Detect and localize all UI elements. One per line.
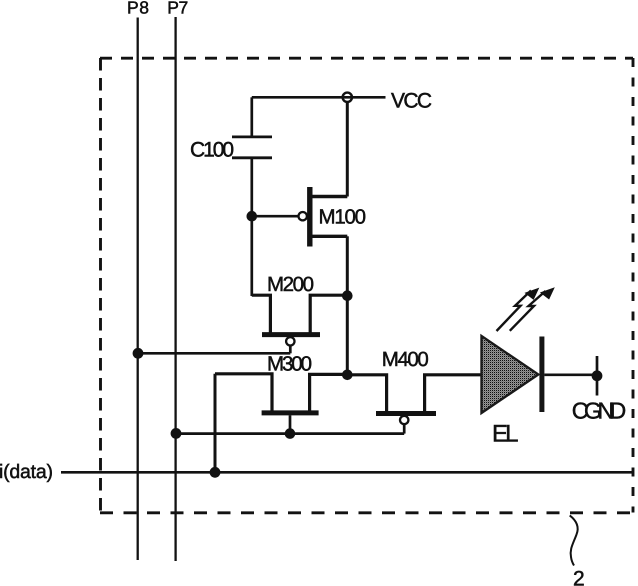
capacitor C100	[232, 137, 272, 158]
svg-text:M400: M400	[382, 348, 429, 371]
scan line P8	[137, 18, 139, 561]
svg-text:M100: M100	[319, 206, 367, 229]
wire: gate node to M100 gate bubble	[252, 215, 299, 218]
svg-text:M300: M300	[267, 353, 312, 376]
node: P7 tap	[171, 428, 182, 439]
svg-text:CGND: CGND	[572, 397, 627, 423]
wire: M100 source down to current node	[346, 236, 349, 295]
wire: EL cathode to CGND terminal	[544, 373, 597, 376]
node: M300 gate junction	[285, 428, 296, 439]
wire: M300 drain down to i(data) row	[214, 374, 217, 473]
transistor M200	[252, 295, 347, 353]
wire: C100 bottom plate down to gate node	[250, 158, 253, 296]
node: M100 source / M200 drain junction	[342, 290, 353, 301]
emission arrows	[497, 287, 555, 331]
scan line P7	[174, 17, 176, 561]
wire: i(data) row line	[61, 471, 633, 474]
svg-text:VCC: VCC	[391, 89, 432, 112]
wire: P7 tap to M300 / M400 gates	[176, 432, 404, 435]
transistor M100	[299, 187, 348, 247]
wire: P8 tap to M200 gate	[138, 352, 290, 355]
node: P8 tap	[133, 348, 144, 359]
leader line to pixel boundary	[570, 515, 578, 565]
wire: VCC rail	[252, 96, 386, 99]
transistor M400	[347, 375, 481, 434]
svg-text:M200: M200	[267, 273, 314, 296]
node: i(data) tap	[210, 467, 221, 478]
EL diode	[482, 336, 545, 413]
node: C100 / M100 gate junction	[247, 211, 258, 222]
node: drive node junction	[342, 370, 353, 381]
svg-text:EL: EL	[492, 421, 519, 448]
VCC terminal	[343, 93, 352, 102]
wire: VCC terminal down to M100 drain	[346, 102, 349, 197]
svg-text:C100: C100	[190, 138, 234, 161]
transistor M300	[215, 374, 347, 434]
pixel boundary dashed border	[100, 58, 633, 513]
svg-text:P8: P8	[127, 0, 149, 18]
svg-text:2: 2	[573, 568, 585, 586]
svg-text:P7: P7	[167, 0, 188, 18]
wire: current node down to drive node	[346, 296, 349, 375]
wire: VCC rail down to C100 top plate	[250, 97, 253, 137]
CGND terminal	[592, 356, 603, 396]
svg-text:i(data): i(data)	[0, 461, 53, 483]
